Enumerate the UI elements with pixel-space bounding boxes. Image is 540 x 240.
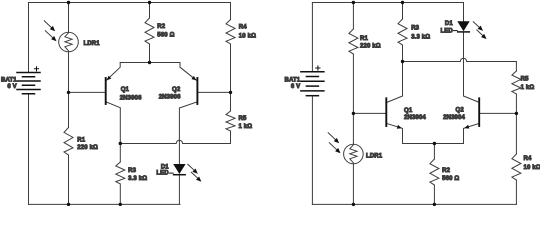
svg-text:R2: R2 <box>157 24 165 30</box>
svg-text:1 kΩ: 1 kΩ <box>239 124 253 130</box>
svg-text:R3: R3 <box>411 26 419 32</box>
svg-text:220 kΩ: 220 kΩ <box>77 145 98 151</box>
svg-text:LED: LED <box>156 170 169 176</box>
svg-text:Q1: Q1 <box>121 87 130 93</box>
svg-text:LED: LED <box>440 28 453 34</box>
svg-text:560 Ω: 560 Ω <box>157 32 174 38</box>
svg-text:Q2: Q2 <box>456 107 465 113</box>
svg-text:R4: R4 <box>524 156 532 162</box>
svg-text:2N3906: 2N3906 <box>159 95 181 101</box>
svg-text:LDR1: LDR1 <box>84 41 101 47</box>
svg-text:1 kΩ: 1 kΩ <box>521 85 535 91</box>
svg-text:10 kΩ: 10 kΩ <box>524 165 540 171</box>
svg-text:2N3906: 2N3906 <box>120 95 142 101</box>
svg-text:R4: R4 <box>239 24 247 30</box>
svg-text:6 V: 6 V <box>291 84 300 90</box>
svg-text:Q1: Q1 <box>404 108 413 114</box>
svg-text:R1: R1 <box>77 137 85 143</box>
svg-text:2N3904: 2N3904 <box>443 115 465 121</box>
svg-text:2N3904: 2N3904 <box>404 115 426 121</box>
svg-text:3.3 kΩ: 3.3 kΩ <box>128 176 147 182</box>
svg-text:6 V: 6 V <box>7 84 16 90</box>
svg-text:3.3 kΩ: 3.3 kΩ <box>411 34 430 40</box>
svg-text:R5: R5 <box>521 76 529 82</box>
svg-text:220 kΩ: 220 kΩ <box>360 43 381 49</box>
svg-text:R2: R2 <box>442 168 450 174</box>
svg-text:BAT1: BAT1 <box>284 77 300 83</box>
svg-text:D1: D1 <box>445 21 453 27</box>
svg-text:10 kΩ: 10 kΩ <box>239 34 256 40</box>
svg-text:R3: R3 <box>128 168 136 174</box>
svg-text:560 Ω: 560 Ω <box>442 176 459 182</box>
svg-text:Q2: Q2 <box>172 87 181 93</box>
svg-text:R5: R5 <box>239 116 247 122</box>
svg-text:BAT1: BAT1 <box>1 77 17 83</box>
svg-text:R1: R1 <box>360 36 368 42</box>
svg-text:LDR1: LDR1 <box>366 153 383 159</box>
